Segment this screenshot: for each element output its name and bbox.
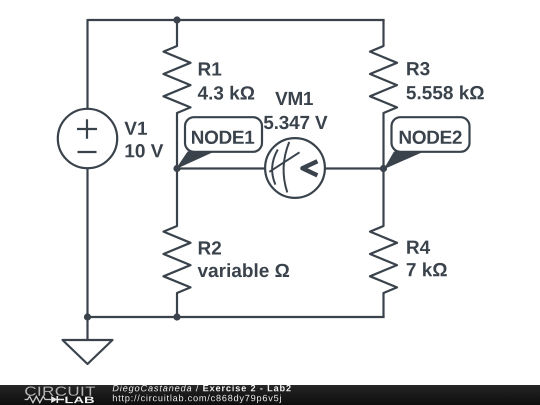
wire: middle rail right (voltmeter to NODE2)	[325, 167, 384, 169]
footer logo resistor glyph	[25, 396, 52, 402]
voltmeter VM1 body	[265, 138, 325, 198]
junction dot NODE2	[380, 165, 387, 172]
label V1 designator	[124, 122, 147, 135]
voltmeter needle	[269, 152, 299, 172]
label R1 designator	[199, 62, 222, 75]
resistor R4	[370, 169, 397, 318]
label R1 value 4.3 kOhm	[198, 86, 254, 100]
node NODE1 callout tail	[176, 152, 215, 170]
footer logo CIRCUIT wordmark	[25, 387, 95, 396]
V1 minus sign	[78, 151, 97, 153]
wire: V1 bottom to bottom rail	[86, 168, 88, 317]
voltage source V1 body	[58, 109, 117, 168]
footer logo LAB wordmark	[65, 397, 94, 404]
node NODE2 label text	[400, 131, 462, 145]
wire: middle rail left (NODE1 to voltmeter)	[177, 167, 265, 169]
footer credit line 2	[113, 395, 281, 404]
label VM1 reading 5.347 V	[264, 116, 328, 130]
footer bar	[0, 385, 540, 405]
node NODE2 callout box	[392, 117, 470, 152]
resistor R1	[164, 20, 191, 169]
wire: bottom rail	[88, 316, 385, 318]
voltmeter gauge arc 1	[272, 150, 278, 185]
ground stem	[86, 317, 88, 340]
label R2 designator	[199, 241, 221, 254]
node NODE1 callout box	[185, 117, 262, 152]
label R2 value variable Ohm	[198, 263, 290, 277]
node NODE2 callout tail	[384, 152, 424, 170]
resistor R2	[164, 169, 191, 318]
ground symbol	[63, 340, 113, 364]
V1 plus sign	[77, 119, 97, 139]
node NODE1 label text	[192, 131, 254, 145]
footer credit line 1	[113, 385, 291, 394]
footer logo diode glyph	[51, 396, 57, 403]
label R3 designator	[407, 62, 429, 76]
junction dot ground	[84, 313, 91, 320]
voltmeter gauge arc 2	[284, 142, 290, 192]
label R4 value 7 kOhm	[407, 262, 447, 276]
label VM1 designator	[275, 92, 313, 105]
wire: left rail V1 top to top-left corner and top rail	[88, 20, 385, 109]
junction dot bottom rail / R2	[173, 313, 180, 320]
junction dot NODE1	[173, 165, 180, 172]
resistor R3	[370, 20, 397, 169]
voltmeter V glyph	[302, 161, 317, 175]
label V1 value 10 V	[126, 144, 164, 158]
label R3 value 5.558 kOhm	[407, 85, 484, 99]
label R4 designator	[407, 241, 430, 254]
junction dot top rail / R1	[173, 16, 180, 23]
